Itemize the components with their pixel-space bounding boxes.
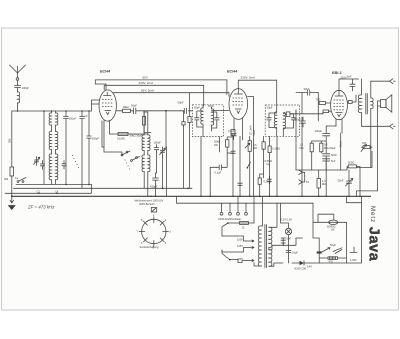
svg-text:410pF: 410pF	[150, 184, 158, 188]
svg-text:50pF: 50pF	[194, 106, 200, 110]
resistor 1,5Mohm	[310, 143, 313, 152]
wire grid line to IF1	[144, 110, 192, 112]
field coil oval resistor	[329, 220, 338, 224]
svg-text:E250 C90: E250 C90	[295, 266, 307, 270]
IF1 cap right	[212, 112, 220, 128]
svg-text:MΩ+50µF: MΩ+50µF	[324, 146, 336, 150]
cap 50pF osc grid	[131, 108, 145, 114]
svg-text:70Ω: 70Ω	[316, 98, 321, 102]
svg-text:Sockelschaltung: Sockelschaltung	[140, 245, 159, 249]
svg-text:log: log	[267, 162, 271, 166]
speaker magnet	[381, 100, 387, 108]
mains lead 1	[221, 227, 223, 236]
osc coil pair A right	[148, 112, 150, 152]
jack top	[390, 79, 396, 84]
antenna coil pair 3 secondary	[56, 154, 58, 185]
heater mid wire	[283, 238, 303, 253]
socket diagram circle	[142, 219, 166, 243]
svg-text:500Ω: 500Ω	[348, 161, 354, 165]
svg-text:1W: 1W	[331, 228, 335, 232]
phono jack TA 2	[299, 180, 305, 185]
resistor 30k left	[10, 167, 14, 176]
svg-text:5nF: 5nF	[347, 75, 352, 79]
svg-text:ECH4: ECH4	[100, 70, 111, 74]
wire 30nF drop	[302, 93, 318, 121]
osc cap 410pF	[153, 173, 159, 184]
svg-text:MΩ: MΩ	[253, 146, 257, 150]
svg-text:125V: 125V	[237, 244, 243, 248]
svg-text:100pF: 100pF	[22, 86, 30, 90]
resistor 0,2Mohm	[258, 178, 261, 184]
antenna coil pair 2 secondary	[56, 131, 58, 150]
wire screen drop	[189, 93, 191, 117]
svg-text:470: 470	[329, 260, 334, 264]
osc coil pair A left	[142, 112, 144, 152]
primary top lead	[254, 226, 262, 266]
cap 5nF bias	[323, 159, 330, 170]
switch link dotted osc	[125, 160, 130, 170]
output transformer primary	[358, 79, 361, 126]
phono jack TA 1	[299, 170, 305, 176]
wire grid return	[296, 110, 312, 170]
svg-text:2W: 2W	[214, 143, 218, 147]
svg-text:230V, 2mA: 230V, 2mA	[139, 81, 154, 85]
tube V3 grids	[334, 100, 345, 110]
line 65V 2mA	[115, 93, 230, 97]
tube V3 cathode heater	[336, 113, 342, 117]
cap 200pF EBL1 bottom	[301, 117, 306, 127]
svg-text:0,1MΩ: 0,1MΩ	[117, 137, 125, 141]
cap det rf	[267, 176, 271, 184]
band switch contacts osc	[121, 151, 139, 161]
socket pin numbers	[137, 214, 172, 250]
IF2 primary coil	[274, 112, 276, 136]
cap 16uF	[286, 251, 291, 264]
svg-text:MΩ: MΩ	[300, 146, 304, 150]
heater leads	[269, 245, 283, 266]
detector cap 0,1uF	[231, 133, 236, 139]
tube V2 cathode cap 50pF	[231, 130, 235, 135]
lamp wires	[280, 203, 288, 238]
wire rf left rail	[43, 111, 45, 184]
svg-text:50nF: 50nF	[338, 179, 344, 183]
transformer primary winding	[258, 226, 261, 266]
tube V1 cathode heater	[105, 111, 111, 115]
svg-text:50pF: 50pF	[267, 106, 273, 110]
speaker leads	[378, 101, 381, 126]
line y170	[296, 168, 347, 171]
cap 50pF coupling	[183, 108, 187, 113]
tube V2 pins bottom	[234, 118, 243, 140]
osc top link	[144, 112, 148, 155]
hum pot	[322, 248, 342, 254]
svg-text:300V-Bereich: 300V-Bereich	[139, 202, 155, 206]
svg-text:5mA: 5mA	[252, 130, 256, 136]
tone line y167.5	[347, 151, 372, 167]
HT leads	[269, 203, 277, 250]
cap 3 100pF mid	[87, 111, 91, 184]
junction node osc	[165, 110, 167, 112]
svg-text:0,1MΩ: 0,1MΩ	[272, 147, 280, 151]
cap 400pF cathode	[323, 126, 330, 141]
output transformer core	[366, 94, 368, 115]
feedback line y192	[357, 191, 378, 196]
wire to bus	[11, 176, 13, 196]
hv branch y214	[318, 214, 334, 222]
wirewound resistor	[328, 257, 338, 260]
speaker cone	[386, 95, 392, 112]
resistor 70ohm screen	[319, 102, 325, 105]
tube V1 top cap wire	[95, 80, 106, 90]
wire sub bus y193.3	[5, 184, 91, 193]
resistor osc grid leak	[143, 111, 145, 117]
resistor avc	[268, 146, 271, 153]
resistor 400ohm	[116, 110, 122, 112]
IF2 secondary coil	[283, 113, 285, 129]
trimmer cap a	[34, 157, 40, 166]
heater bus line y203	[177, 196, 314, 203]
antenna coil pair 2 primary	[49, 131, 51, 150]
caps 5nF heater	[281, 238, 286, 245]
osc trimmer	[160, 147, 166, 156]
switch contacts row	[17, 178, 26, 183]
svg-text:UKW-Drahtfunkteile: UKW-Drahtfunkteile	[218, 217, 241, 221]
svg-text:ZF = 473 kHz: ZF = 473 kHz	[27, 205, 55, 210]
line 55V	[95, 80, 227, 95]
svg-text:100pF: 100pF	[92, 137, 100, 141]
voltage tap arrows	[246, 240, 254, 262]
dial lamp	[285, 228, 291, 234]
output transformer secondary	[371, 98, 373, 109]
wire left drop x11.8	[11, 111, 13, 167]
electrolytic 50uF	[317, 251, 322, 253]
cap 50nF bias	[323, 154, 330, 159]
svg-text:50nF: 50nF	[331, 153, 337, 157]
speaker jack line bottom	[362, 126, 390, 191]
svg-text:ECH4: ECH4	[227, 70, 238, 74]
mains switch pole 2	[222, 250, 238, 263]
tube V2 anode	[235, 89, 243, 94]
resistor osc anode	[118, 133, 128, 136]
secondary heater winding	[269, 250, 272, 267]
wire cathode chain	[312, 133, 342, 170]
osc coil pair B left	[142, 155, 144, 188]
svg-text:380: 380	[7, 138, 11, 143]
ground	[9, 196, 16, 209]
line 230V 2mA	[104, 85, 204, 106]
antenna coil	[18, 92, 20, 111]
svg-text:0,1µF: 0,1µF	[228, 129, 235, 133]
IF1 primary coil	[201, 105, 203, 137]
wire antenna bus y111	[12, 110, 92, 112]
bottom power bus	[310, 196, 362, 263]
resistor 520ohm feedback	[363, 146, 370, 149]
meter symbol	[151, 208, 156, 213]
transformer core	[265, 225, 267, 268]
svg-text:100pF: 100pF	[69, 117, 77, 121]
antenna	[10, 65, 26, 92]
secondary HT winding	[269, 227, 272, 247]
resistor pad drop	[183, 111, 185, 122]
secondary wires	[370, 81, 372, 167]
resistor 0,3Mohm	[320, 143, 323, 152]
antenna coil pair 1 secondary	[56, 111, 58, 129]
tube V1 envelope	[99, 90, 116, 121]
svg-text:MΩ: MΩ	[322, 182, 326, 186]
grid resistor EBL1	[323, 110, 329, 113]
resistor det load	[262, 142, 265, 149]
IF2 cap left	[267, 113, 277, 128]
tube V2 screen wire	[248, 97, 254, 197]
fuse Si	[240, 222, 249, 225]
IF1 secondary out to V2	[212, 110, 230, 112]
IF transformer 1 shield box	[192, 105, 223, 137]
switch link dotted	[72, 155, 79, 168]
speaker jack line top	[371, 80, 390, 82]
grid wire to EBL1	[300, 113, 323, 115]
jack bottom	[390, 124, 396, 129]
tube V2 envelope	[229, 89, 248, 120]
cap 100pF det	[238, 183, 242, 185]
line 230V 3mA	[238, 80, 276, 112]
tube V1 pin6	[114, 92, 115, 94]
tube V1 grids	[102, 100, 113, 107]
avc bus y188.3	[14, 187, 193, 189]
antenna coil pair 1 primary	[49, 111, 51, 129]
resistor 1,0Mohm	[317, 178, 320, 188]
right vertical feeds	[346, 222, 357, 258]
tube V2 grids	[233, 98, 245, 105]
wires hum network	[319, 258, 346, 263]
svg-text:pF: pF	[85, 114, 88, 118]
tube V3 screen cap 10nF	[348, 101, 352, 104]
svg-text:40kΩ: 40kΩ	[123, 105, 129, 109]
wire bias top	[312, 126, 336, 153]
svg-text:30k: 30k	[4, 177, 9, 181]
IF1 secondary coil	[212, 107, 214, 131]
tone pot 50nF	[346, 178, 353, 187]
trimmer cap b	[40, 161, 44, 170]
resistor 50k 2W	[226, 140, 229, 147]
junction dots bus	[11, 184, 361, 198]
osc wires to buses	[104, 133, 167, 197]
svg-text:0,1µF: 0,1µF	[215, 170, 222, 174]
svg-text:400pF: 400pF	[315, 129, 323, 133]
IF2 grid stopper resistor	[286, 112, 290, 117]
cap 0,1uF lower	[216, 165, 224, 170]
tube V1 anode	[104, 92, 112, 96]
mains switch pole 1	[223, 223, 236, 227]
svg-text:230V, 3mA: 230V, 3mA	[241, 76, 256, 80]
IF transformer 2 shield box	[265, 105, 299, 136]
svg-text:3,4V: 3,4V	[307, 264, 313, 268]
rf lower bus y184.4	[16, 183, 91, 185]
volume pot 0,5Mohm	[248, 141, 251, 152]
svg-text:6,3V 0,3A: 6,3V 0,3A	[281, 218, 293, 222]
osc coil pair B right	[148, 155, 150, 196]
svg-text:520: 520	[362, 141, 367, 145]
junction dots antenna line	[17, 110, 90, 112]
verticals to bus	[201, 129, 283, 197]
tube V3 envelope	[331, 90, 348, 119]
svg-text:EBL1: EBL1	[332, 71, 342, 75]
svg-text:5nF: 5nF	[331, 159, 336, 163]
terminal risers	[222, 196, 263, 226]
svg-text:50pF: 50pF	[208, 104, 214, 108]
cap 2	[80, 111, 84, 188]
rectifier diode	[292, 262, 300, 264]
main ground bus	[12, 195, 371, 197]
wires EBL1 area to bus	[296, 93, 341, 197]
vertical link tube1 pins to switch	[102, 121, 104, 147]
svg-text:30nF: 30nF	[304, 87, 310, 91]
grid riser to tube1	[91, 100, 99, 111]
svg-text:Metz: Metz	[369, 206, 376, 223]
svg-text:5nF: 5nF	[287, 236, 292, 240]
tube V1 pin wires bottom	[104, 120, 110, 152]
resistor 500ohm	[348, 165, 356, 168]
padding cap C 100pF	[64, 111, 69, 184]
svg-text:1,35V: 1,35V	[350, 258, 357, 262]
socket pins	[139, 217, 168, 246]
wire osc feed drop	[165, 111, 168, 147]
svg-text:55V: 55V	[143, 75, 148, 79]
svg-text:50µF: 50µF	[330, 243, 336, 247]
terminal circles	[220, 212, 247, 215]
svg-text:50pF: 50pF	[178, 101, 184, 105]
IF1 cap left	[195, 111, 203, 127]
hv line y222	[313, 203, 346, 245]
svg-text:50pF: 50pF	[131, 104, 137, 108]
cap 5nF det	[231, 151, 235, 153]
cap fixed osc pad	[62, 161, 66, 170]
tap stub wires	[222, 236, 246, 263]
IF2 cap right	[283, 114, 295, 128]
osc padder cap	[154, 145, 158, 154]
svg-text:200pF: 200pF	[294, 117, 302, 121]
tube V3 anode	[335, 90, 343, 96]
tube V3 pins bottom	[336, 119, 342, 133]
antenna coil pair 3 primary	[49, 154, 51, 185]
wire coil mid links	[52, 129, 56, 154]
switch on pot	[248, 162, 251, 167]
svg-text:65V, 2mA: 65V, 2mA	[141, 88, 154, 92]
tube V3 plate feed	[339, 79, 359, 90]
cap 5nF anode	[350, 79, 355, 91]
svg-text:110V: 110V	[237, 237, 243, 241]
svg-text:Java: Java	[365, 227, 381, 262]
resistor screen	[188, 116, 191, 122]
tube V2 cathode heater	[235, 109, 241, 113]
svg-text:150pF: 150pF	[154, 140, 162, 144]
svg-text:TA: TA	[306, 180, 309, 184]
svg-text:16µF: 16µF	[292, 250, 298, 254]
cap 30nF line	[302, 90, 318, 95]
